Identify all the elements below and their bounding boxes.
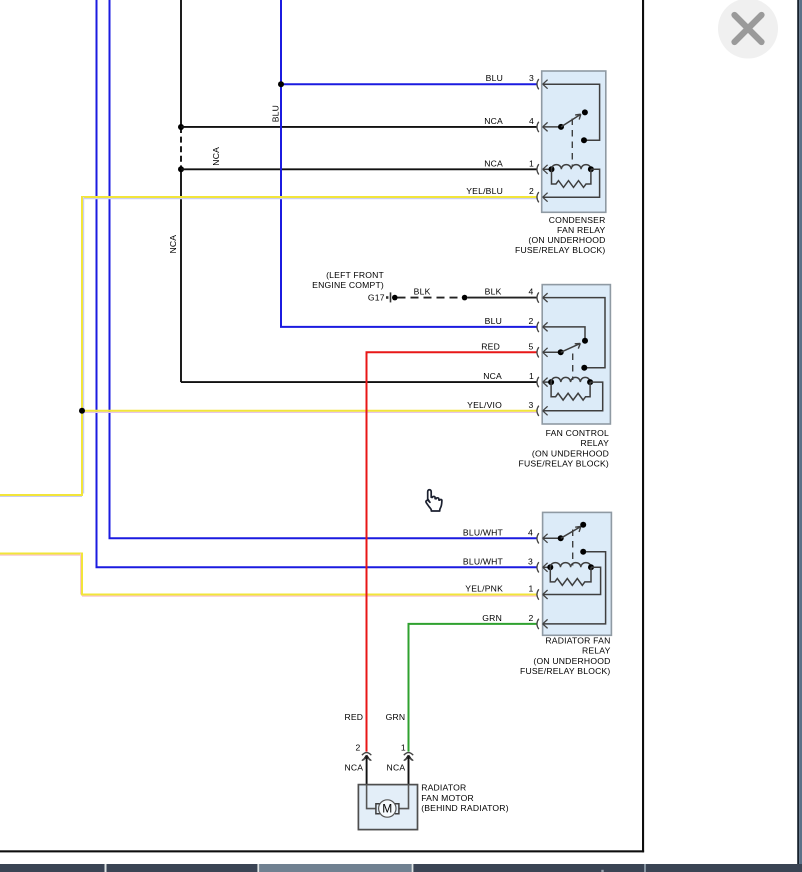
svg-text:ENGINE COMPT): ENGINE COMPT) [312, 280, 384, 290]
wire BLK dashed from G17 [398, 297, 463, 299]
svg-text:GRN: GRN [482, 613, 502, 623]
pin number 4 U2 [529, 287, 534, 297]
svg-text:G17: G17 [368, 293, 385, 303]
junction dot NCA bus lower [178, 166, 184, 172]
svg-text:M: M [382, 801, 392, 815]
wire BLK to fan control relay pin 4 [467, 297, 536, 299]
relay U2 internal switch [543, 298, 605, 380]
close button [718, 0, 778, 59]
pin number 2 U3 [529, 613, 534, 623]
relay U1 coil [543, 165, 600, 198]
svg-text:4: 4 [529, 287, 534, 297]
relay U3 internal switch [543, 522, 606, 624]
svg-text:NCA: NCA [484, 116, 503, 126]
label BLU rotated [271, 105, 281, 122]
label NCA pin1 U1 [484, 158, 503, 168]
svg-text:1: 1 [401, 743, 406, 753]
wire BLU/WHT net to radiator relay pin 3 (vertical x=96.5) [97, 0, 537, 567]
relay U2 pin 2 connector [537, 322, 548, 332]
pin number 4 U3 [528, 527, 533, 537]
svg-text:4: 4 [529, 116, 534, 126]
label BLU pin2 U2 [485, 316, 502, 326]
svg-text:2: 2 [529, 613, 534, 623]
junction dot BLK [462, 295, 468, 301]
svg-text:2: 2 [356, 743, 361, 753]
wire NCA to condenser relay pin 1 [181, 168, 537, 170]
svg-text:3: 3 [528, 556, 533, 566]
svg-text:BLU: BLU [271, 105, 281, 122]
relay U3 coil [543, 563, 601, 595]
label RED pin5 U2 [481, 341, 500, 351]
svg-text:YEL/BLU: YEL/BLU [466, 186, 503, 196]
svg-text:2: 2 [529, 186, 534, 196]
label BLU/WHT pin4 U3 [463, 527, 504, 537]
svg-text:4: 4 [528, 527, 533, 537]
svg-text:5: 5 [529, 341, 534, 351]
relay U2 pin 1 connector [537, 377, 548, 387]
wire YEL/VIO to fan control relay pin 3 [82, 411, 537, 413]
relay U1 pin 3 connector [537, 79, 548, 89]
relay U1 pin 4 connector [537, 122, 548, 132]
inline connector motor pin 2 [362, 753, 371, 785]
svg-text:NCA: NCA [211, 147, 221, 166]
label NCA rotated lower [168, 235, 178, 254]
junction dot YEL bus [79, 408, 85, 414]
wire YEL/PNK to radiator relay pin 1 [0, 553, 537, 597]
svg-text:(ON UNDERHOOD: (ON UNDERHOOD [533, 656, 610, 666]
svg-text:RADIATOR: RADIATOR [421, 783, 466, 793]
diagram border frame [0, 0, 644, 852]
label ground location [312, 270, 385, 303]
label NCA motor left [344, 762, 363, 772]
svg-text:NCA: NCA [484, 158, 503, 168]
svg-text:1: 1 [529, 584, 534, 594]
svg-text:RED: RED [481, 341, 500, 351]
svg-text:(BEHIND RADIATOR): (BEHIND RADIATOR) [421, 803, 509, 813]
svg-text:(ON UNDERHOOD: (ON UNDERHOOD [532, 448, 609, 458]
label YEL/PNK pin1 U3 [465, 584, 503, 594]
pin number 3 U2 [529, 400, 534, 410]
pin number 1 U1 [529, 158, 534, 168]
relay U2 fan control relay box [542, 285, 610, 424]
label YEL/VIO pin3 U2 [467, 400, 502, 410]
relay U2 pin 3 connector [537, 406, 548, 416]
pin number 4 U1 [529, 116, 534, 126]
label motor caption [421, 783, 509, 813]
relay U1 pin 1 connector [537, 164, 548, 174]
relay U3 pin 1 connector [537, 589, 548, 599]
relay U1 condenser fan relay box [542, 71, 606, 212]
mouse cursor [426, 490, 442, 511]
pin number 2 U1 [529, 186, 534, 196]
svg-text:GRN: GRN [386, 712, 406, 722]
svg-text:BLK: BLK [414, 287, 431, 297]
wire BLU to condenser relay pin 3 [281, 83, 537, 85]
wire BLU vertical bus x=281 [281, 0, 537, 327]
label BLU/WHT pin3 U3 [463, 556, 504, 566]
pin number 1 motor [401, 743, 406, 753]
relay U1 caption [515, 215, 606, 255]
svg-text:NCA: NCA [168, 235, 178, 254]
wire NCA vertical bus x=181 [181, 0, 537, 382]
wire GRN from radiator relay pin 2 to motor [409, 624, 537, 752]
svg-text:BLU/WHT: BLU/WHT [463, 527, 504, 537]
label BLK pin4 U2 [485, 287, 502, 297]
svg-text:(ON UNDERHOOD: (ON UNDERHOOD [528, 235, 605, 245]
svg-text:1: 1 [529, 158, 534, 168]
inline connector motor pin 1 [404, 753, 413, 785]
relay U3 pin 3 connector [537, 562, 548, 572]
svg-text:RELAY: RELAY [580, 438, 609, 448]
svg-text:CONDENSER: CONDENSER [549, 215, 606, 225]
pin number 2 U2 [529, 316, 534, 326]
pin number 2 motor [356, 743, 361, 753]
svg-text:RELAY: RELAY [582, 646, 611, 656]
svg-text:YEL/VIO: YEL/VIO [467, 400, 502, 410]
svg-text:FUSE/RELAY BLOCK): FUSE/RELAY BLOCK) [515, 245, 605, 255]
label RED at motor [344, 712, 363, 722]
motor M1 radiator fan motor box [358, 785, 417, 830]
pin number 1 U3 [529, 584, 534, 594]
svg-text:3: 3 [529, 73, 534, 83]
relay U1 coil resistor [552, 169, 591, 187]
svg-text:BLU/WHT: BLU/WHT [463, 556, 504, 566]
svg-text:FUSE/RELAY BLOCK): FUSE/RELAY BLOCK) [520, 666, 610, 676]
relay U3 radiator fan relay box [543, 512, 612, 635]
svg-text:1: 1 [529, 371, 534, 381]
svg-text:3: 3 [529, 400, 534, 410]
junction dot NCA bus upper [178, 124, 184, 130]
label NCA rotated upper [211, 147, 221, 166]
svg-text:BLU: BLU [485, 316, 502, 326]
wire YEL/BLU from condenser relay pin 2 [0, 196, 537, 496]
pin number 5 U2 [529, 341, 534, 351]
relay U1 pin 2 connector [537, 192, 548, 202]
relay U3 pin 2 connector [537, 619, 548, 629]
svg-text:(LEFT FRONT: (LEFT FRONT [326, 270, 384, 280]
pin number 3 U1 [529, 73, 534, 83]
svg-text:FUSE/RELAY BLOCK): FUSE/RELAY BLOCK) [519, 458, 609, 468]
svg-text:YEL/PNK: YEL/PNK [465, 584, 503, 594]
svg-text:NCA: NCA [387, 762, 406, 772]
label NCA pin4 U1 [484, 116, 503, 126]
motor M1 internal wiring [367, 785, 409, 814]
pin number 1 U2 [529, 371, 534, 381]
label NCA motor right [387, 762, 406, 772]
svg-text:FAN CONTROL: FAN CONTROL [546, 428, 609, 438]
ground G17 symbol [386, 292, 398, 302]
bottom tab bar [0, 864, 802, 872]
svg-text:NCA: NCA [344, 762, 363, 772]
label YEL/BLU pin2 U1 [466, 186, 503, 196]
label GRN at motor [386, 712, 406, 722]
label NCA pin1 U2 [483, 371, 502, 381]
svg-text:BLK: BLK [485, 287, 502, 297]
relay U3 pin 4 connector [537, 533, 548, 543]
label BLK over dashed wire [414, 287, 431, 297]
motor M1 symbol [379, 800, 396, 817]
wire RED from fan control relay pin 5 to motor [367, 352, 537, 751]
svg-text:RED: RED [344, 712, 363, 722]
svg-text:FAN MOTOR: FAN MOTOR [421, 793, 474, 803]
relay U2 pin 4 connector [537, 292, 548, 302]
svg-text:2: 2 [529, 316, 534, 326]
svg-text:RADIATOR FAN: RADIATOR FAN [545, 636, 610, 646]
relay U1 internal switch [543, 84, 600, 166]
junction dot BLU bus [278, 81, 284, 87]
svg-text:NCA: NCA [483, 371, 502, 381]
wire BLU/WHT net to radiator relay pin 4 (vertical x=109.5) [110, 0, 537, 538]
relay U2 caption [519, 428, 610, 468]
relay U2 coil resistor [551, 382, 590, 400]
label BLU pin3 U1 [486, 73, 503, 83]
relay U2 coil [543, 377, 603, 410]
relay U3 coil resistor [550, 567, 591, 585]
label GRN pin2 U3 [482, 613, 502, 623]
relay U3 caption [520, 636, 611, 676]
svg-text:BLU: BLU [486, 73, 503, 83]
right window edge strip [797, 0, 802, 864]
relay U2 pin 5 connector [537, 347, 548, 357]
svg-text:FAN RELAY: FAN RELAY [557, 225, 606, 235]
wire NCA to condenser relay pin 4 [181, 126, 537, 128]
pin number 3 U3 [528, 556, 533, 566]
